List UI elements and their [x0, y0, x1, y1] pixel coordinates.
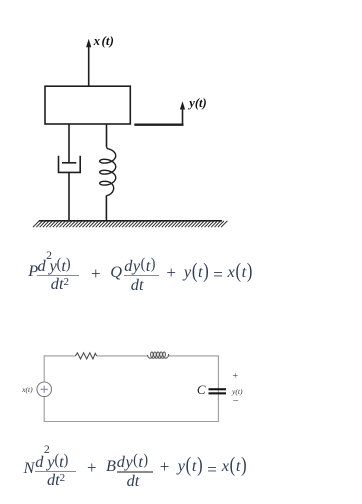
- mechanical system: [39, 39, 222, 221]
- wire y(t) arm horizontal: [134, 123, 183, 125]
- source x(t) circle: [37, 382, 52, 397]
- wire y(t) arm vertical: [182, 107, 184, 126]
- equation 2 numerator dy(t): [117, 454, 149, 470]
- node label y(t): [189, 97, 206, 110]
- wire top: [44, 355, 75, 357]
- equation 2 denominator dt: [127, 473, 140, 489]
- equation 2 exponent 2: [44, 444, 50, 456]
- source label x(t): [22, 386, 33, 394]
- wire bottom: [44, 421, 218, 423]
- node label x(t): [94, 35, 115, 48]
- equation 2 term x(t): [222, 458, 248, 474]
- capacitor C plates: [209, 388, 227, 394]
- equation 1 fraction bar 2: [124, 275, 158, 276]
- spring K coil: [100, 146, 116, 195]
- equation 1 plus: [91, 265, 101, 282]
- resistor R: [75, 353, 96, 359]
- equation 2 fraction bar 2: [117, 471, 153, 472]
- capacitor polarity plus: [232, 372, 238, 382]
- damper piston plate: [62, 162, 76, 164]
- mass M block: [45, 86, 130, 124]
- ground line: [39, 220, 222, 222]
- equation 2 plus: [87, 459, 97, 476]
- equation 1 term x(t): [228, 264, 254, 280]
- equation 1 plus 2: [166, 264, 176, 281]
- wire left: [43, 355, 45, 382]
- equation 2 term y(t): [178, 458, 204, 474]
- output label y(t): [232, 388, 243, 396]
- equation 1 numerator dy(t): [124, 258, 156, 274]
- spring rod upper: [106, 124, 108, 147]
- equation 1 equals: [213, 266, 223, 283]
- equation 1 denominator dt: [131, 277, 144, 293]
- damper rod lower: [68, 172, 70, 220]
- node x(t) arrowhead: [86, 39, 91, 47]
- damper cylinder cup: [59, 156, 81, 173]
- equation 1 coefficient P: [28, 263, 38, 279]
- equation 2 plus 2: [160, 458, 170, 475]
- equation 2 fraction bar 1: [35, 471, 76, 472]
- inductor L: [147, 352, 168, 358]
- equation 1 fraction bar 1: [37, 275, 79, 276]
- ground hatching: [33, 221, 227, 227]
- equation 1 coefficient Q: [110, 264, 122, 280]
- equation 2 numerator d2y(t): [35, 454, 68, 470]
- equation 2 denominator dt2: [47, 472, 65, 488]
- damper rod upper: [68, 124, 70, 163]
- equation 1 denominator dt2: [51, 276, 69, 292]
- capacitor label C: [197, 383, 206, 396]
- source polarity plus: [41, 386, 48, 393]
- equation 2 equals: [207, 461, 217, 478]
- equation 2 coefficient N: [24, 460, 35, 476]
- equation 1 exponent 2: [46, 250, 52, 262]
- equation 1 numerator d2y(t): [38, 258, 71, 274]
- spring rod lower: [105, 196, 107, 221]
- node y(t) arrowhead: [180, 101, 185, 109]
- wire right: [217, 355, 219, 422]
- wire x(t) input rod: [88, 45, 90, 87]
- circuit loop wires: [44, 355, 218, 422]
- equation 2 coefficient B: [106, 458, 116, 474]
- equation 1 term y(t): [184, 264, 210, 280]
- capacitor polarity minus: [233, 396, 239, 407]
